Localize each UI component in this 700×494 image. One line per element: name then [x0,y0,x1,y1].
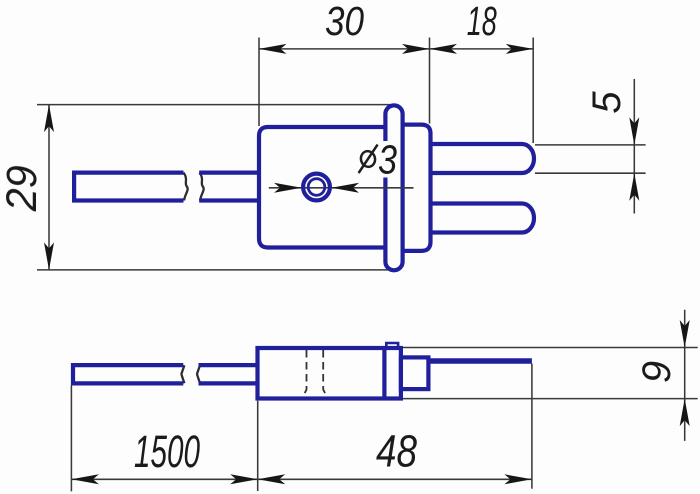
svg-text:29: 29 [0,165,46,212]
svg-text:3: 3 [378,137,397,183]
svg-text:5: 5 [585,91,629,114]
svg-text:1500: 1500 [134,426,200,477]
svg-text:18: 18 [467,0,497,44]
svg-text:48: 48 [376,425,417,476]
svg-text:9: 9 [635,361,679,383]
svg-text:30: 30 [325,0,364,44]
